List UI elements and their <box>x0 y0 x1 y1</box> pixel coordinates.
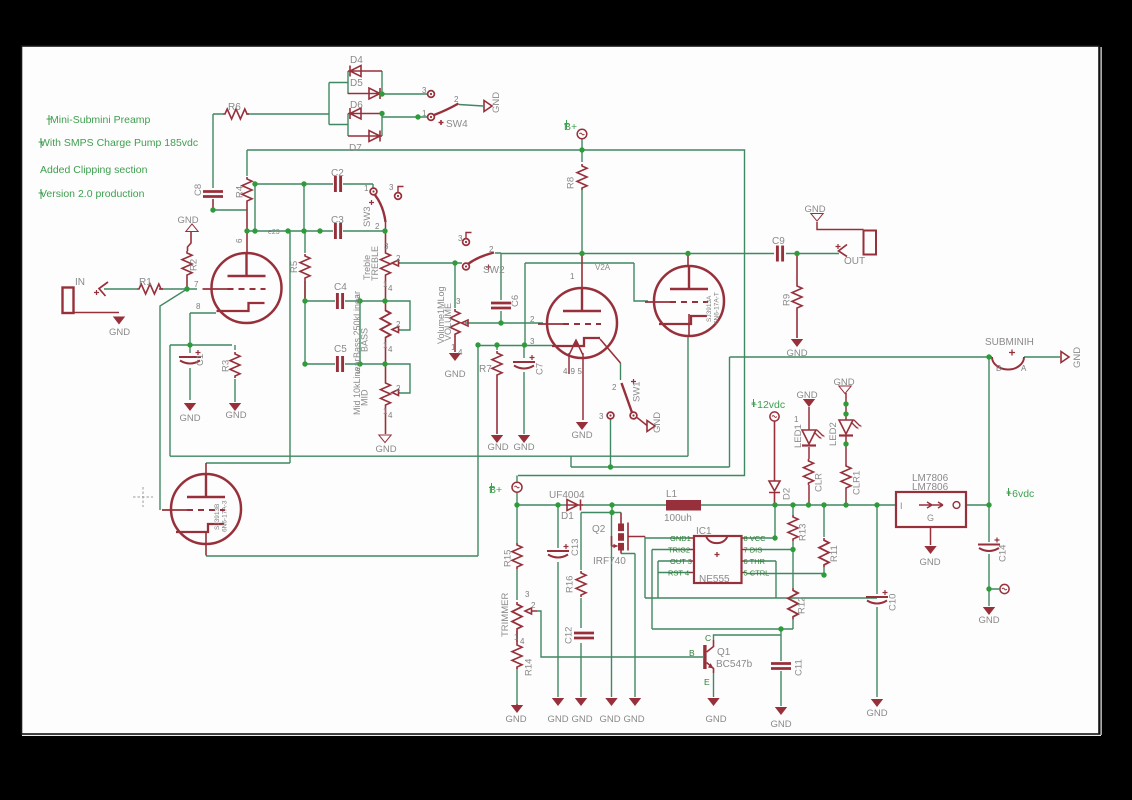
svg-text:R5: R5 <box>289 261 300 273</box>
svg-text:C7: C7 <box>535 363 546 375</box>
svg-text:GND: GND <box>786 348 807 359</box>
svg-text:D7: D7 <box>349 143 362 154</box>
svg-text:LM7806: LM7806 <box>912 482 949 493</box>
svg-text:C10: C10 <box>888 594 899 611</box>
svg-text:3: 3 <box>456 297 461 306</box>
svg-text:C8: C8 <box>193 184 204 196</box>
svg-text:GND: GND <box>177 215 198 226</box>
svg-text:6: 6 <box>235 238 244 243</box>
svg-text:3: 3 <box>356 367 361 376</box>
svg-text:E: E <box>704 677 710 687</box>
svg-text:4: 4 <box>563 367 568 376</box>
svg-text:GND: GND <box>833 377 854 388</box>
svg-text:R8: R8 <box>566 177 577 189</box>
svg-text:4: 4 <box>388 411 393 420</box>
svg-text:G: G <box>927 513 934 523</box>
svg-text:GND: GND <box>919 557 940 568</box>
svg-text:I: I <box>900 501 903 511</box>
svg-text:2: 2 <box>396 254 401 263</box>
svg-text:SW4: SW4 <box>446 119 468 130</box>
svg-text:C: C <box>705 633 711 643</box>
svg-text:2: 2 <box>454 95 459 104</box>
svg-text:GND: GND <box>487 442 508 453</box>
svg-text:GND: GND <box>571 430 592 441</box>
svg-text:1: 1 <box>794 415 799 424</box>
svg-text:6N6-17A-3: 6N6-17A-3 <box>222 500 229 532</box>
svg-text:C11: C11 <box>794 659 805 676</box>
svg-text:IC1: IC1 <box>696 526 712 537</box>
svg-text:GND: GND <box>547 714 568 725</box>
svg-text:C6: C6 <box>510 295 521 307</box>
svg-text:R4: R4 <box>235 186 246 198</box>
svg-text:1: 1 <box>364 184 369 193</box>
svg-text:3: 3 <box>530 337 535 346</box>
svg-text:1: 1 <box>514 633 519 642</box>
svg-text:4: 4 <box>388 284 393 293</box>
svg-text:7: 7 <box>194 280 199 289</box>
svg-text:C3: C3 <box>331 215 344 226</box>
svg-text:9: 9 <box>571 367 576 376</box>
svg-text:8 VCC: 8 VCC <box>744 534 767 543</box>
svg-text:BASS: BASS <box>360 328 370 352</box>
svg-text:8: 8 <box>196 302 201 311</box>
svg-text:A: A <box>1021 364 1027 373</box>
svg-text:2: 2 <box>531 601 536 610</box>
svg-text:C1: C1 <box>195 354 206 366</box>
svg-text:GND: GND <box>866 708 887 719</box>
svg-text:SW2: SW2 <box>483 265 505 276</box>
svg-text:TRIG2: TRIG2 <box>668 546 690 555</box>
svg-text:3: 3 <box>422 86 427 95</box>
svg-text:3: 3 <box>525 590 530 599</box>
svg-text:B+: B+ <box>564 121 577 133</box>
svg-text:3: 3 <box>458 234 463 243</box>
svg-text:Q1: Q1 <box>717 647 731 658</box>
svg-text:Mini-Submini Preamp: Mini-Submini Preamp <box>50 114 151 126</box>
svg-text:6 THR: 6 THR <box>744 557 766 566</box>
svg-text:Version 2.0 production: Version 2.0 production <box>40 188 145 200</box>
svg-text:GND: GND <box>804 204 825 215</box>
svg-text:R15: R15 <box>503 550 514 567</box>
svg-text:MID: MID <box>360 389 370 406</box>
svg-text:GND: GND <box>375 444 396 455</box>
svg-text:C4: C4 <box>334 282 347 293</box>
svg-text:3: 3 <box>599 412 604 421</box>
svg-text:TRIMMER: TRIMMER <box>500 593 511 637</box>
svg-text:R12: R12 <box>797 597 808 614</box>
svg-text:5 CTRL: 5 CTRL <box>744 569 770 578</box>
svg-text:6N6-17A-T: 6N6-17A-T <box>714 292 721 324</box>
svg-text:LED1: LED1 <box>793 424 804 448</box>
svg-text:BC547b: BC547b <box>716 659 753 670</box>
svg-text:LED2: LED2 <box>828 422 839 446</box>
svg-text:R7: R7 <box>479 364 492 375</box>
svg-text:B: B <box>689 648 695 658</box>
svg-text:GND: GND <box>571 714 592 725</box>
svg-text:R11: R11 <box>829 545 840 562</box>
svg-text:2: 2 <box>530 315 535 324</box>
svg-text:GND1: GND1 <box>670 534 691 543</box>
svg-text:IN: IN <box>75 277 85 288</box>
svg-text:GND: GND <box>705 714 726 725</box>
svg-text:GND: GND <box>505 714 526 725</box>
svg-text:L1: L1 <box>666 489 678 500</box>
svg-text:e23: e23 <box>268 229 280 236</box>
svg-text:D2: D2 <box>782 488 793 500</box>
svg-text:C14: C14 <box>998 545 1009 562</box>
svg-text:IRF740: IRF740 <box>593 556 626 567</box>
svg-text:GND: GND <box>179 413 200 424</box>
svg-text:GND: GND <box>1072 347 1083 368</box>
svg-text:R14: R14 <box>524 659 535 676</box>
svg-text:R3: R3 <box>221 360 232 372</box>
svg-text:100uh: 100uh <box>664 513 692 524</box>
svg-text:OUT 3: OUT 3 <box>670 557 692 566</box>
svg-text:GND: GND <box>623 714 644 725</box>
svg-text:C9: C9 <box>772 236 785 247</box>
svg-text:4: 4 <box>458 348 463 357</box>
svg-text:5: 5 <box>578 367 583 376</box>
svg-text:GND: GND <box>513 442 534 453</box>
svg-text:V2A: V2A <box>595 263 611 272</box>
svg-text:SUBMINIH: SUBMINIH <box>985 337 1034 348</box>
svg-text:Q2: Q2 <box>592 524 606 535</box>
svg-text:CLR: CLR <box>814 473 825 492</box>
svg-text:C13: C13 <box>570 539 581 556</box>
svg-text:4: 4 <box>520 637 525 646</box>
svg-text:GND: GND <box>599 714 620 725</box>
svg-text:2: 2 <box>396 384 401 393</box>
svg-text:R1: R1 <box>139 277 152 288</box>
svg-text:C5: C5 <box>334 344 347 355</box>
svg-text:RST 4: RST 4 <box>668 569 689 578</box>
svg-text:GND: GND <box>978 615 999 626</box>
svg-text:R2: R2 <box>189 259 200 271</box>
svg-text:1: 1 <box>451 343 456 352</box>
svg-text:CLR1: CLR1 <box>852 471 863 495</box>
svg-text:UF4004: UF4004 <box>549 490 585 501</box>
svg-text:OUT: OUT <box>844 256 865 267</box>
svg-text:+6vdc: +6vdc <box>1006 488 1034 500</box>
svg-text:7 DIS: 7 DIS <box>744 546 763 555</box>
svg-text:D6: D6 <box>350 100 363 111</box>
svg-text:2: 2 <box>612 383 617 392</box>
svg-text:1: 1 <box>570 272 575 281</box>
svg-text:GND: GND <box>225 410 246 421</box>
svg-text:VOLUME: VOLUME <box>443 303 453 341</box>
svg-text:GND: GND <box>444 369 465 380</box>
svg-text:R6: R6 <box>228 102 241 113</box>
svg-text:D1: D1 <box>561 511 574 522</box>
svg-text:SW1: SW1 <box>632 381 643 402</box>
svg-text:3: 3 <box>384 242 389 251</box>
svg-text:R13: R13 <box>798 524 809 541</box>
svg-text:4: 4 <box>388 345 393 354</box>
svg-text:With SMPS Charge Pump 185vdc: With SMPS Charge Pump 185vdc <box>40 137 198 149</box>
svg-text:SJ3913A: SJ3913A <box>706 295 713 322</box>
svg-text:2: 2 <box>489 245 494 254</box>
svg-text:+12vdc: +12vdc <box>751 399 785 411</box>
svg-text:R9: R9 <box>782 294 793 306</box>
svg-text:GND: GND <box>491 92 502 113</box>
svg-text:SW3: SW3 <box>362 206 373 227</box>
svg-text:Added Clipping section: Added Clipping section <box>40 164 148 176</box>
svg-text:3: 3 <box>389 183 394 192</box>
svg-text:2: 2 <box>396 320 401 329</box>
svg-text:D5: D5 <box>350 78 363 89</box>
svg-text:C2: C2 <box>331 168 344 179</box>
svg-text:R16: R16 <box>565 576 576 593</box>
svg-text:GND: GND <box>109 327 130 338</box>
svg-text:C12: C12 <box>564 627 575 644</box>
svg-text:NE555: NE555 <box>699 574 730 585</box>
svg-text:GND: GND <box>770 719 791 730</box>
svg-text:D4: D4 <box>350 55 363 66</box>
svg-text:TREBLE: TREBLE <box>370 246 380 281</box>
svg-text:3: 3 <box>356 294 361 303</box>
svg-text:B+: B+ <box>489 484 502 496</box>
svg-text:GND: GND <box>652 412 663 433</box>
svg-text:1: 1 <box>422 109 427 118</box>
svg-text:B: B <box>996 364 1001 373</box>
svg-text:GND: GND <box>796 390 817 401</box>
svg-text:SJ3913B: SJ3913B <box>214 504 221 530</box>
svg-text:2: 2 <box>375 222 380 231</box>
